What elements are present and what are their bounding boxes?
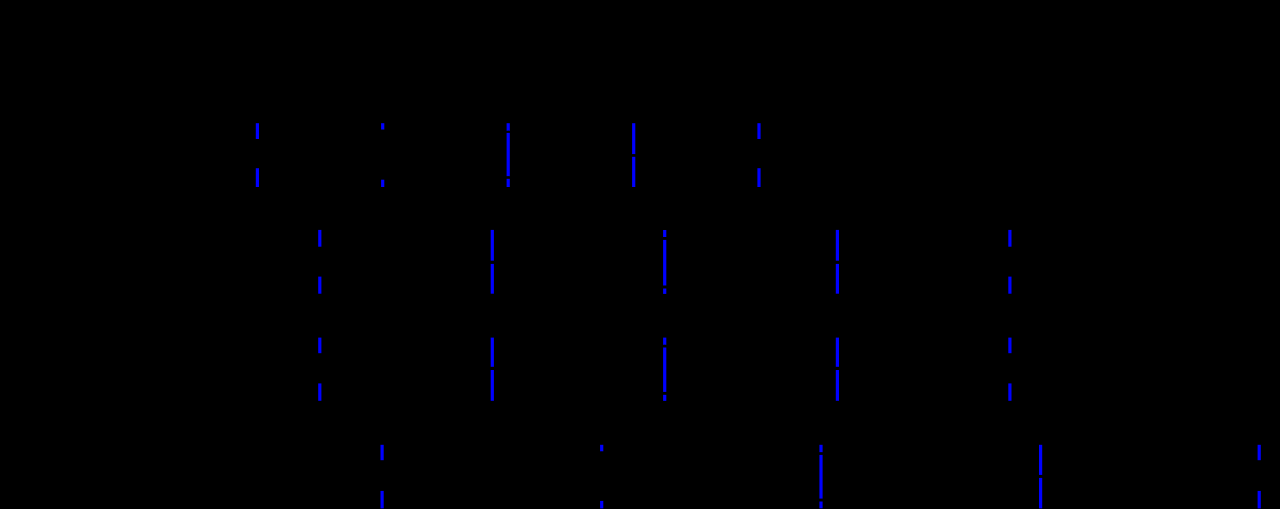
wire upper segment row C branch 2 <box>491 338 494 367</box>
wire bottom rail row A <box>257 187 759 190</box>
svg-text:R6: R6 <box>1021 359 1041 378</box>
node junction row B branch 4 <box>836 261 839 264</box>
wire middle segment row C branch 3 <box>663 348 666 392</box>
wire lead bottom of resistor R1 <box>256 168 259 187</box>
wire lead top of resistor R5 <box>318 338 321 355</box>
node terminal lower row D branch 3 <box>820 499 823 502</box>
wire bottom stub row B branch 3 <box>663 289 666 294</box>
wire lead bottom of resistor R8 <box>1258 491 1261 509</box>
wire top stub row C branch 3 <box>663 338 666 345</box>
wire middle segment row A branch 3 <box>507 133 510 176</box>
wire lead bottom of source E2 <box>600 501 603 509</box>
wire upper segment row D branch 4 <box>1039 445 1042 475</box>
svg-text:R4: R4 <box>1021 252 1041 271</box>
wire lower segment row B branch 2 <box>491 264 494 294</box>
wire lead bottom of resistor R4 <box>1008 277 1011 294</box>
resistor R8 (box body) <box>1252 461 1280 491</box>
source E1 (circle body) <box>358 131 431 180</box>
wire top rail row B <box>320 227 1010 230</box>
wire lead bottom of resistor R3 <box>318 277 321 294</box>
wire lower segment row B branch 4 <box>836 264 839 294</box>
wire upper segment row B branch 4 <box>836 230 839 261</box>
wire upper segment row A branch 4 <box>632 123 635 154</box>
wire middle segment row B branch 3 <box>663 240 666 286</box>
wire bottom rail row C <box>320 401 1010 404</box>
resistor R3 (box body) <box>313 248 351 277</box>
wire lead bottom of resistor R7 <box>381 491 384 509</box>
wire lower segment row C branch 4 <box>836 370 839 401</box>
wire lead top of source E1 <box>381 123 384 130</box>
svg-text:R1: R1 <box>268 145 288 164</box>
wire upper segment row B branch 2 <box>491 230 494 261</box>
resistor R6 (box body) <box>1003 354 1041 383</box>
wire lead bottom of resistor R5 <box>318 383 321 400</box>
wire bottom rail row D <box>382 508 1259 509</box>
node terminal upper row C branch 3 <box>663 345 666 348</box>
wire bottom stub row D branch 3 <box>819 502 822 509</box>
svg-text:R7: R7 <box>393 467 414 486</box>
wire lower segment row C branch 2 <box>491 370 494 401</box>
node junction row C branch 4 <box>836 367 839 370</box>
wire lead top of resistor R3 <box>318 230 321 248</box>
svg-text:R2: R2 <box>770 145 790 164</box>
wire top stub row A branch 3 <box>507 123 510 131</box>
wire top rail row A <box>257 120 759 123</box>
node terminal lower row A branch 3 <box>507 176 510 179</box>
node junction row C branch 2 <box>491 367 494 370</box>
svg-text:E1: E1 <box>412 145 432 164</box>
node junction row D branch 4 <box>1039 475 1042 478</box>
resistor R2 (box body) <box>752 140 790 168</box>
node terminal lower row B branch 3 <box>663 286 666 289</box>
wire lead bottom of resistor R2 <box>757 168 760 187</box>
wire lower segment row D branch 4 <box>1039 478 1042 509</box>
node terminal upper row B branch 3 <box>663 237 666 240</box>
wire top rail row D <box>382 442 1259 445</box>
node junction row A branch 4 <box>632 154 635 157</box>
wire lead top of resistor R8 <box>1258 445 1261 461</box>
wire bottom stub row A branch 3 <box>507 179 510 187</box>
wire top stub row D branch 3 <box>819 445 822 452</box>
wire lead top of source E2 <box>600 445 603 452</box>
wire bottom rail row B <box>320 294 1010 297</box>
wire lead top of resistor R4 <box>1008 230 1011 248</box>
wire middle segment row D branch 3 <box>819 455 822 499</box>
wire lead top of resistor R7 <box>381 445 384 461</box>
wire lead top of resistor R1 <box>256 123 259 140</box>
wire upper segment row C branch 4 <box>836 338 839 367</box>
node terminal upper row A branch 3 <box>507 131 510 134</box>
source E2 (circle body) <box>577 452 651 501</box>
node terminal lower row C branch 3 <box>663 392 666 395</box>
wire lead bottom of source E1 <box>381 180 384 187</box>
wire lead top of resistor R6 <box>1008 338 1011 355</box>
node terminal upper row D branch 3 <box>820 452 823 455</box>
resistor R5 (box body) <box>313 354 351 383</box>
resistor R7 (box body) <box>375 461 414 491</box>
node junction row B branch 2 <box>491 261 494 264</box>
resistor R1 (box body) <box>250 140 288 168</box>
wire top rail row C <box>320 334 1010 337</box>
svg-text:E2: E2 <box>631 467 651 486</box>
resistor R4 (box body) <box>1003 248 1041 277</box>
svg-text:R8: R8 <box>1270 467 1280 486</box>
wire bottom stub row C branch 3 <box>663 395 666 401</box>
svg-text:R3: R3 <box>331 252 351 271</box>
svg-text:R5: R5 <box>331 359 351 378</box>
wire lead top of resistor R2 <box>757 123 760 140</box>
wire top stub row B branch 3 <box>663 230 666 237</box>
wire lower segment row A branch 4 <box>632 157 635 187</box>
wire lead bottom of resistor R6 <box>1008 383 1011 400</box>
